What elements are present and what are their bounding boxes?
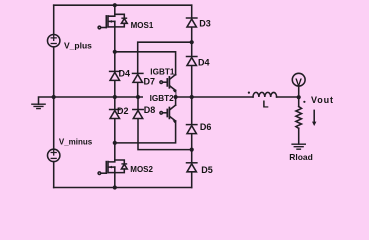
wire top rail to D3 — [191, 5, 193, 18]
wire MOS2 source to bottom rail — [114, 173, 116, 188]
wire IGBT2 emitter down — [115, 121, 176, 143]
source V_minus — [48, 149, 60, 161]
wire mid rail right section — [176, 96, 253, 98]
wire left rail upper — [53, 5, 55, 34]
node D6/D5 junction — [190, 148, 194, 152]
svg-text:MOS1: MOS1 — [131, 21, 154, 30]
svg-text:D5: D5 — [201, 165, 213, 175]
wire D3 to junction — [191, 28, 193, 43]
wire left rail middle — [53, 47, 55, 149]
label IGBT2 — [143, 92, 176, 103]
node MOS2 drain junction — [113, 141, 117, 145]
transistor MOS2 — [98, 143, 127, 175]
wire left rail lower — [53, 162, 55, 188]
transistor IGBT2 — [160, 105, 176, 123]
svg-text:D6: D6 — [200, 122, 212, 132]
wire D6 to junction — [191, 134, 193, 149]
wire D7 to mid rail — [137, 83, 139, 97]
svg-text:D4: D4 — [198, 57, 210, 67]
svg-text:Rload: Rload — [289, 152, 313, 162]
svg-text:V_minus: V_minus — [59, 138, 93, 147]
wire mid rail left section — [54, 96, 144, 98]
svg-text:V_plus: V_plus — [64, 40, 92, 50]
node top rail / MOS1 drain junction — [113, 3, 117, 7]
transistor IGBT1 — [160, 75, 176, 93]
wire D4 to mid rail — [191, 66, 193, 97]
wire MOS1 source down — [114, 27, 116, 52]
wire tap to IGBT1 collector — [115, 52, 176, 75]
ground (under Rload) — [292, 144, 305, 149]
inductor L — [253, 92, 277, 97]
net marker dot at Vout — [303, 101, 305, 103]
resistor Rload — [296, 97, 302, 144]
svg-text:Vout: Vout — [311, 95, 334, 105]
wire D8 down and right to D5/D6 junction — [138, 119, 192, 150]
wire voltmeter to Vout node — [298, 86, 300, 97]
node Vout — [297, 95, 301, 99]
svg-text:D4: D4 — [119, 68, 131, 78]
node D3/D4 junction — [190, 40, 194, 44]
diode D8 — [133, 97, 143, 119]
wire junction to D7 — [138, 42, 192, 73]
ground (left) — [32, 104, 45, 108]
diode D2 — [110, 97, 120, 119]
svg-text:D3: D3 — [199, 19, 211, 29]
svg-text:D7: D7 — [144, 77, 156, 87]
node mid rail at D7/D8 column — [136, 95, 140, 99]
wire ground stub — [39, 97, 54, 104]
node MOS1 source / IGBT1 collector tap — [113, 50, 117, 54]
svg-text:D2: D2 — [117, 106, 129, 116]
transistor MOS1 — [98, 5, 127, 29]
wire IGBT2 collector to mid rail — [175, 97, 177, 105]
node ground junction — [52, 95, 56, 99]
node mid rail at IGBT column — [174, 95, 178, 99]
node bottom rail / MOS2 source junction — [113, 185, 117, 189]
wire bottom rail to D5 — [191, 172, 193, 187]
net marker dot before inductor — [248, 92, 250, 94]
diode D3 — [187, 18, 197, 27]
svg-text:MOS2: MOS2 — [130, 165, 153, 174]
source V_plus — [48, 35, 60, 47]
node mid rail at D4/D6 column — [190, 95, 194, 99]
node mid rail at MOS column — [113, 95, 117, 99]
wire D4 left to mid rail — [114, 81, 116, 97]
diode D4 (left column) — [110, 52, 120, 81]
diode D6 — [187, 97, 197, 134]
voltmeter V — [292, 73, 305, 86]
diode D7 — [133, 73, 143, 82]
wire bottom rail — [54, 187, 192, 189]
svg-text:L: L — [263, 100, 269, 111]
svg-text:IGBT1: IGBT1 — [150, 67, 175, 76]
current arrow — [312, 110, 316, 126]
svg-text:IGBT2: IGBT2 — [150, 94, 175, 103]
wire IGBT1 emitter to mid rail — [175, 90, 177, 97]
wire inductor to Vout node — [277, 96, 299, 98]
wire top rail — [54, 4, 192, 6]
wire D2 down to node — [114, 119, 116, 143]
diode D4 (right column) — [187, 42, 197, 65]
svg-text:D8: D8 — [144, 105, 156, 115]
diode D5 — [187, 150, 197, 172]
